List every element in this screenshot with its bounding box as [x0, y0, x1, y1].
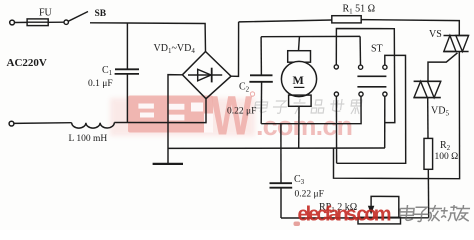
wire R1 right — [361, 20, 459, 36]
watermark EEPW block EEP — [128, 96, 213, 133]
品 — [311, 100, 325, 113]
界 — [350, 100, 362, 114]
子 — [412, 207, 430, 221]
烧 — [440, 205, 458, 221]
ST contact 1 top lead + wire y28.5 — [336, 29, 395, 123]
svg-text:C3: C3 — [294, 174, 305, 186]
wire top — [90, 23, 206, 52]
diac VD5 — [414, 80, 441, 82]
resistor R2 — [424, 138, 433, 169]
电 — [399, 205, 414, 220]
svg-text:M: M — [293, 73, 304, 87]
capacitor C2 — [260, 37, 262, 76]
ST contact 1 circles — [334, 65, 338, 69]
svg-text:VD1~VD4: VD1~VD4 — [154, 43, 196, 55]
发 — [428, 205, 442, 221]
motor armature — [281, 61, 316, 96]
fuse FU — [27, 19, 48, 26]
potentiometer RP wiper loop — [371, 196, 399, 217]
watermark small red mark — [294, 222, 301, 227]
terminal bottom-left — [9, 121, 14, 126]
motor M top lead — [298, 37, 301, 51]
capacitor C1 — [126, 23, 128, 69]
子 — [272, 101, 288, 113]
wire — [48, 21, 64, 23]
motor field winding bottom — [289, 95, 312, 106]
ST contact 3 bottom lead — [384, 96, 386, 148]
capacitor C3 leads — [280, 124, 282, 183]
wire R1 left — [239, 20, 332, 22]
ST contact 2 top lead from W1 — [359, 36, 361, 65]
wire W1 — [261, 35, 360, 37]
svg-text:C1: C1 — [102, 65, 113, 77]
wire bridge right up to R1 — [231, 22, 239, 77]
inductor L — [72, 123, 115, 129]
svg-text:AC220V: AC220V — [7, 57, 47, 69]
bus y124 — [261, 96, 361, 124]
svg-text:elecfans.com: elecfans.com — [298, 204, 392, 226]
产 — [292, 99, 306, 114]
motor field winding top — [288, 51, 311, 63]
wire VD5 to R2 — [427, 98, 429, 139]
svg-text:0.1 μF: 0.1 μF — [88, 79, 113, 89]
wire bridge left to ground column — [168, 75, 182, 164]
triac VS — [444, 35, 469, 37]
right rail down from VS — [334, 52, 460, 179]
svg-text:SB: SB — [95, 9, 107, 19]
电 — [254, 99, 268, 112]
potentiometer RP body — [358, 217, 401, 224]
svg-text:R1 51 Ω: R1 51 Ω — [343, 4, 376, 16]
svg-text:FU: FU — [39, 8, 53, 19]
svg-text:100 Ω: 100 Ω — [435, 152, 459, 162]
ST contact 3 circles — [383, 65, 387, 69]
switch SB pivot — [64, 20, 68, 24]
svg-text:.com.cn: .com.cn — [256, 111, 353, 141]
gate wire VS — [428, 53, 458, 82]
世 — [329, 99, 345, 111]
ground — [153, 163, 183, 165]
motor bottom lead — [298, 106, 300, 148]
svg-text:VS: VS — [429, 29, 442, 40]
svg-text:L 100 mH: L 100 mH — [69, 134, 108, 144]
svg-text:VD5: VD5 — [431, 106, 449, 118]
svg-text:0.22 μF: 0.22 μF — [227, 107, 256, 117]
svg-text:ST: ST — [371, 44, 383, 55]
watermark EEPW glow band — [110, 98, 255, 136]
ST contact 2 circles — [359, 65, 363, 69]
wire — [114, 99, 206, 123]
svg-text:C2: C2 — [239, 82, 250, 94]
resistor R1 — [332, 16, 361, 23]
switch SB blade — [68, 12, 88, 22]
watermark gray chinese 电子产品世界 (approx strokes) — [254, 99, 362, 114]
ST moving bars — [357, 75, 386, 77]
terminal top-left — [10, 20, 15, 25]
wire h-A neutral bus — [168, 147, 385, 149]
svg-text:0.22 μF: 0.22 μF — [295, 190, 324, 200]
bottom wire — [281, 217, 429, 219]
watermark dark chinese 电子发烧友 (approx strokes) — [399, 205, 471, 221]
svg-text:R2: R2 — [440, 140, 451, 152]
wire h-B crossover — [337, 55, 406, 163]
ST contact1 bottom lead — [335, 96, 337, 163]
bridge rectifier VD1~VD4 — [182, 52, 231, 99]
wire R2 bottom — [427, 169, 429, 218]
watermark (R) mark — [250, 92, 254, 96]
wire — [15, 21, 28, 23]
wire — [14, 122, 72, 125]
友 — [455, 205, 470, 221]
